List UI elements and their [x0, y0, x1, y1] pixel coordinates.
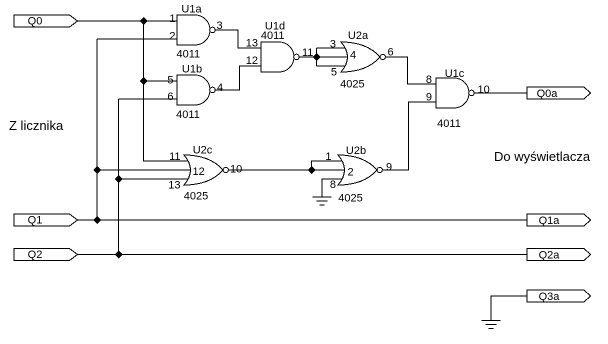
junction Q2 bus at Q2 line [115, 251, 123, 259]
svg-text:Q0: Q0 [28, 16, 43, 28]
wire U2a pin 5 [317, 65, 345, 67]
svg-text:1: 1 [325, 151, 331, 163]
junction Q1 bus at Q1 line [93, 216, 101, 224]
svg-text:U1b: U1b [182, 64, 202, 76]
svg-text:4011: 4011 [261, 30, 285, 42]
svg-text:U2a: U2a [348, 30, 369, 42]
svg-text:Q0a: Q0a [537, 88, 559, 100]
svg-text:5: 5 [167, 75, 173, 87]
svg-text:Do wyświetlacza: Do wyświetlacza [494, 149, 591, 164]
wire U2c pin 12 [97, 169, 191, 171]
wire Q1 line [78, 219, 528, 221]
svg-text:1: 1 [169, 13, 175, 25]
svg-text:4: 4 [217, 82, 223, 94]
input flag Q1 [14, 214, 78, 227]
wire U2a output pin 6 to U1c pin 8 [385, 57, 436, 84]
junction Q2 bus at U2c pin 13 [115, 175, 123, 183]
svg-text:4: 4 [350, 50, 356, 62]
wire U2c output pin 10 to U2b pin 2 [228, 169, 345, 171]
svg-text:4025: 4025 [338, 193, 362, 205]
wire U2c pin 13 [119, 178, 188, 180]
svg-text:4011: 4011 [176, 109, 200, 121]
svg-text:Q2: Q2 [28, 249, 43, 261]
NAND gate U1b (4011) [167, 64, 223, 122]
wire Q3a to ground [491, 296, 527, 321]
input flag Q2 [14, 249, 78, 262]
svg-text:U1a: U1a [181, 4, 202, 16]
svg-text:Q2a: Q2a [539, 250, 561, 262]
input flag Q0 [14, 15, 78, 28]
output flag Q0a [527, 87, 591, 100]
svg-text:Z licznika: Z licznika [9, 118, 64, 133]
svg-text:U2c: U2c [193, 145, 213, 157]
junction Q0 bus top [140, 17, 148, 25]
svg-text:11: 11 [302, 47, 313, 59]
output flag Q2a [527, 249, 591, 262]
wire U2a input bus [316, 48, 318, 66]
svg-text:5: 5 [331, 67, 337, 79]
svg-text:8: 8 [426, 74, 432, 86]
svg-text:10: 10 [478, 84, 490, 96]
wire vertical net Q1 bus [96, 39, 98, 220]
wire U1b pin 6 from Q2 bus [119, 98, 178, 100]
svg-text:8: 8 [330, 179, 336, 191]
wire U1b output to U1d pin 12 [215, 66, 261, 90]
wire U2b pin 8 to ground [322, 179, 342, 197]
svg-text:11: 11 [169, 151, 180, 163]
svg-text:6: 6 [388, 47, 394, 59]
svg-text:12: 12 [246, 55, 258, 67]
junction U2c output node at U2b [308, 166, 316, 174]
output flag Q3a [527, 290, 591, 303]
wire U1a pin 2 from Q1 bus [97, 38, 177, 40]
wire U2b output pin 9 to U1c pin 9 [382, 102, 436, 170]
svg-text:Q1: Q1 [28, 215, 43, 227]
NAND gate U1a (4011) [169, 4, 222, 61]
svg-text:6: 6 [167, 91, 173, 103]
wire U2a pin 3 [317, 47, 345, 49]
ground at Q3a [482, 321, 501, 329]
wire U1b pin 5 [144, 80, 178, 82]
wire U2a pin 4 [317, 56, 349, 58]
svg-text:Q3a: Q3a [539, 291, 561, 303]
svg-text:13: 13 [246, 38, 258, 50]
svg-text:Q1a: Q1a [539, 215, 561, 227]
NOR gate U2a (4025) [330, 30, 394, 91]
junction Q0 bus at U1b pin 5 [140, 77, 148, 85]
svg-text:3: 3 [217, 20, 223, 32]
svg-text:9: 9 [426, 92, 432, 104]
svg-text:9: 9 [386, 162, 392, 174]
wire Q2 line [78, 254, 528, 256]
junction U1d output node [313, 53, 321, 61]
svg-text:U1c: U1c [445, 68, 465, 80]
svg-text:3: 3 [330, 39, 336, 51]
NAND gate U1d (4011) [246, 21, 314, 73]
output flag Q1a [527, 214, 591, 227]
wire U1c output to Q0a [474, 92, 527, 94]
NAND gate U1c (4011) [426, 68, 490, 130]
wire U1a output to U1d pin 13 [215, 30, 261, 48]
svg-text:4011: 4011 [437, 118, 461, 130]
wire U1d output pin 11 [299, 56, 316, 58]
svg-text:4025: 4025 [340, 79, 364, 91]
wire U2b pin 1 [312, 161, 342, 170]
NOR gate U2c (4025) [168, 145, 242, 203]
ground at U2b pin 8 [312, 197, 331, 205]
svg-text:13: 13 [168, 180, 180, 192]
svg-text:4025: 4025 [184, 191, 208, 203]
NOR gate U2b (4025) [325, 145, 392, 205]
svg-text:2: 2 [348, 167, 354, 179]
junction Q1 bus at U2c pin 12 [93, 166, 101, 174]
svg-text:10: 10 [230, 164, 242, 176]
svg-text:U2b: U2b [346, 145, 366, 157]
svg-text:2: 2 [169, 31, 175, 43]
svg-text:12: 12 [193, 166, 205, 178]
wire Q0 to U1a pin 1 [78, 20, 178, 22]
wire vertical net Q2 bus [118, 99, 120, 255]
svg-text:4011: 4011 [176, 49, 200, 61]
wire vertical net Q0 bus [144, 21, 188, 161]
